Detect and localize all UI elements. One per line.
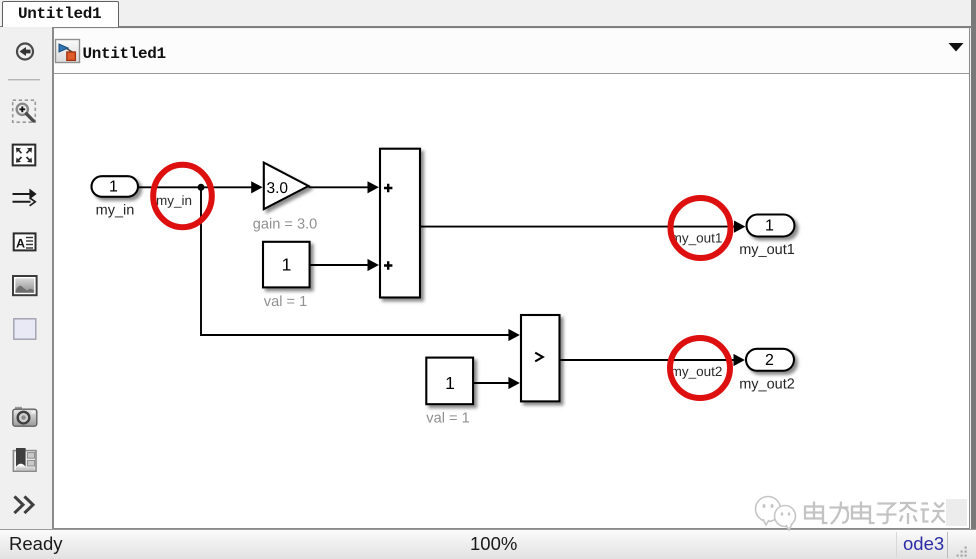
svg-text:my_out1: my_out1 [671,231,723,246]
svg-text:val = 1: val = 1 [264,294,307,310]
svg-text:my_out2: my_out2 [739,376,795,392]
svg-text:1: 1 [765,218,774,235]
svg-text:2: 2 [765,352,774,369]
svg-text:my_in: my_in [156,193,192,208]
svg-text:1: 1 [282,255,292,275]
svg-text:my_in: my_in [96,203,135,219]
svg-text:my_out1: my_out1 [739,242,795,258]
svg-text:A: A [16,237,25,251]
svg-text:1: 1 [445,373,455,393]
svg-text:my_out2: my_out2 [671,364,723,379]
svg-text:gain = 3.0: gain = 3.0 [253,217,318,233]
svg-text:1: 1 [109,179,118,196]
svg-text:3.0: 3.0 [267,180,289,197]
svg-text:val = 1: val = 1 [426,411,469,427]
